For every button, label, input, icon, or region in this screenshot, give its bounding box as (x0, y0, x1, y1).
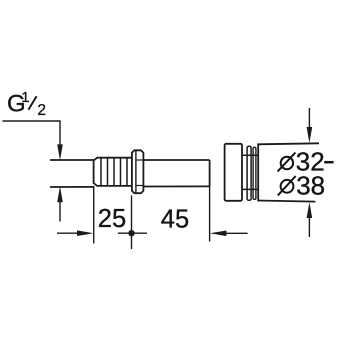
svg-text:1: 1 (21, 89, 29, 106)
arrow down to pipe top (57, 144, 63, 160)
ring 1 (247, 146, 251, 200)
leader line of G1/2 (3, 121, 61, 147)
svg-text:45: 45 (161, 206, 189, 234)
dimension 45 (161, 187, 248, 242)
pipe body (50, 160, 210, 187)
node dot of chained dimension (118, 196, 147, 250)
extension line at thread start (93, 186, 95, 244)
svg-text:2: 2 (37, 102, 46, 119)
label G1/2 (7, 89, 46, 119)
neck lines (242, 155, 258, 189)
threaded section (94, 158, 132, 186)
cap cylinder (225, 144, 242, 201)
ring 2 (253, 147, 256, 199)
diameter symbol of 38 (278, 176, 296, 195)
dimension 25 (57, 205, 126, 236)
arrow up to pipe bottom (57, 186, 63, 221)
svg-text:38: 38 (296, 171, 325, 201)
diameter dimension top arrow (307, 108, 313, 143)
svg-text:25: 25 (98, 205, 126, 233)
diameter symbol of 32 (278, 153, 296, 172)
diameter dimension bottom arrow (307, 202, 313, 237)
nut collar (132, 150, 144, 193)
rosette (open right) (257, 143, 319, 201)
hyphen of 32- (324, 161, 333, 164)
